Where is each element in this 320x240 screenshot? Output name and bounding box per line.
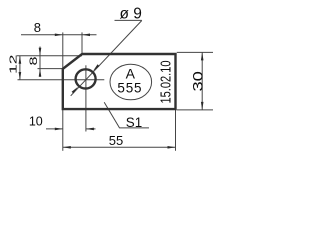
svg-text:555: 555 bbox=[117, 80, 142, 95]
svg-text:30: 30 bbox=[191, 71, 206, 91]
svg-text:15.02.10: 15.02.10 bbox=[157, 61, 174, 104]
svg-text:8: 8 bbox=[34, 20, 41, 35]
svg-text:10: 10 bbox=[29, 115, 43, 129]
svg-text:S1: S1 bbox=[126, 115, 142, 130]
svg-text:8: 8 bbox=[27, 56, 39, 65]
svg-text:55: 55 bbox=[109, 133, 123, 148]
svg-text:ø 9: ø 9 bbox=[119, 6, 141, 23]
svg-text:12: 12 bbox=[8, 55, 19, 74]
svg-text:A: A bbox=[126, 65, 136, 81]
